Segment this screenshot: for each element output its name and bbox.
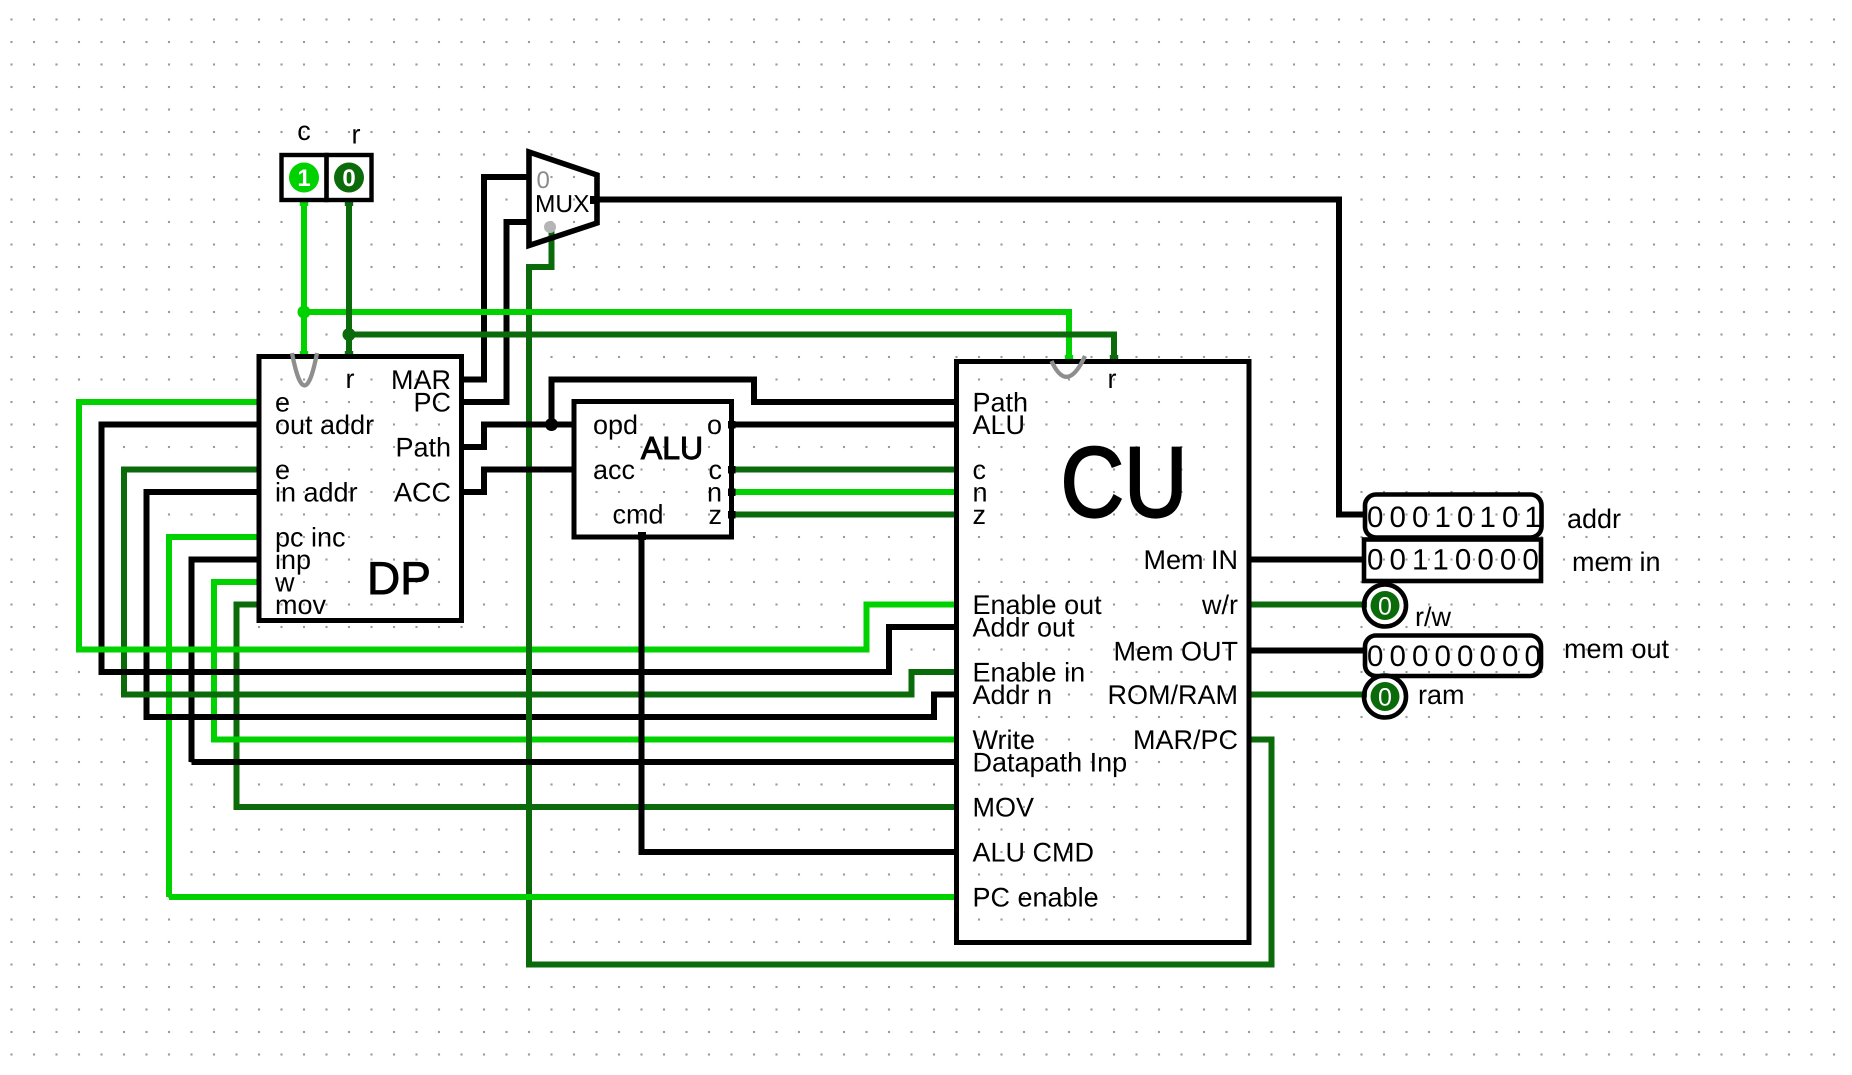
svg-text:DP: DP	[367, 552, 431, 604]
svg-text:PC enable: PC enable	[973, 883, 1099, 913]
svg-text:CU: CU	[1060, 427, 1187, 539]
svg-text:o: o	[707, 410, 722, 440]
svg-text:Addr out: Addr out	[973, 613, 1076, 643]
svg-text:out addr: out addr	[275, 410, 374, 440]
svg-text:1: 1	[297, 165, 310, 192]
svg-text:ram: ram	[1418, 680, 1465, 710]
svg-text:PC: PC	[413, 388, 451, 418]
svg-text:z: z	[973, 500, 987, 530]
svg-text:acc: acc	[593, 455, 635, 485]
svg-text:00110000: 00110000	[1367, 544, 1545, 577]
svg-text:00010101: 00010101	[1367, 501, 1547, 534]
svg-text:Datapath Inp: Datapath Inp	[973, 748, 1128, 778]
svg-text:Mem IN: Mem IN	[1144, 545, 1239, 575]
svg-text:0: 0	[537, 167, 550, 194]
svg-text:ALU: ALU	[641, 430, 703, 466]
svg-text:c: c	[297, 116, 311, 146]
svg-text:r/w: r/w	[1415, 602, 1451, 632]
svg-text:0: 0	[1378, 684, 1392, 712]
svg-text:0: 0	[342, 165, 355, 192]
svg-text:mem in: mem in	[1572, 547, 1661, 577]
svg-text:cmd: cmd	[612, 500, 663, 530]
svg-text:z: z	[709, 500, 723, 530]
svg-text:mem out: mem out	[1564, 634, 1670, 664]
svg-text:ACC: ACC	[394, 478, 451, 508]
svg-text:0: 0	[1378, 593, 1392, 621]
svg-text:w/r: w/r	[1201, 590, 1238, 620]
svg-text:ALU CMD: ALU CMD	[973, 838, 1095, 868]
svg-text:MUX: MUX	[535, 191, 589, 218]
svg-text:Path: Path	[395, 433, 451, 463]
svg-text:MOV: MOV	[973, 793, 1035, 823]
svg-text:opd: opd	[593, 410, 638, 440]
svg-text:Mem OUT: Mem OUT	[1114, 637, 1239, 667]
svg-text:00000000: 00000000	[1367, 640, 1547, 673]
svg-text:r: r	[1108, 364, 1117, 394]
svg-text:Addr n: Addr n	[973, 680, 1053, 710]
svg-text:mov: mov	[275, 590, 327, 620]
svg-text:r: r	[346, 364, 355, 394]
svg-text:in addr: in addr	[275, 478, 358, 508]
svg-text:addr: addr	[1567, 504, 1621, 534]
svg-text:ROM/RAM: ROM/RAM	[1108, 680, 1239, 710]
svg-text:ALU: ALU	[973, 410, 1026, 440]
svg-text:r: r	[352, 120, 361, 150]
svg-text:MAR/PC: MAR/PC	[1133, 725, 1238, 755]
